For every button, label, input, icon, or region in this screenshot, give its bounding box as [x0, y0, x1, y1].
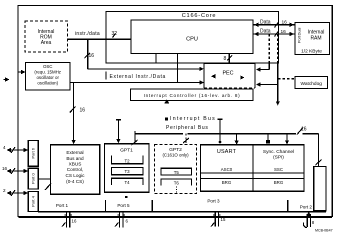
pin stub port 1: [62, 212, 77, 228]
USART ASC0 box: [201, 145, 305, 192]
wire peripheral bus drop to GPT1: [132, 134, 138, 145]
svg-text:16: 16: [2, 166, 8, 171]
GPT1 box: [105, 144, 150, 193]
svg-text:Port 4: Port 4: [31, 195, 36, 206]
svg-text:16: 16: [80, 108, 86, 114]
timer T5: [161, 168, 192, 175]
port 0 box left: [28, 168, 38, 189]
wire peripheral bus drop to SSC: [285, 134, 289, 145]
svg-text:15: 15: [221, 217, 226, 222]
svg-text:T3: T3: [124, 169, 130, 174]
wire CPU to PEC with 8: [224, 54, 233, 64]
timer T4: [112, 178, 144, 185]
port strip bottom rail: [38, 200, 326, 212]
timer T6: [161, 179, 192, 186]
svg-text:BRG: BRG: [222, 180, 232, 185]
node Peripheral Bus label: [166, 125, 209, 131]
svg-text:CS Logic: CS Logic: [65, 173, 85, 178]
svg-text:Control,: Control,: [67, 167, 83, 172]
pin arrow port 0: [2, 166, 28, 174]
wire upper to PEC: [88, 67, 204, 71]
wire from data bus to PEC lower and watchdog: [256, 34, 295, 106]
pin arrow port 6: [3, 145, 28, 153]
svg-text:GPT1: GPT1: [120, 148, 133, 154]
Internal ROM Area (dashed): [25, 21, 68, 52]
pin arrow port 4: [3, 188, 28, 196]
port 4 box left: [28, 192, 38, 212]
PEC box: [204, 64, 255, 89]
svg-text:External Instr./Data: External Instr./Data: [110, 74, 167, 80]
svg-text:Interrupt Controller (16-lev.: Interrupt Controller (16-lev. arb. 8): [144, 93, 241, 98]
svg-text:Port 1: Port 1: [56, 203, 69, 208]
node Interrupt Bus label: [165, 116, 216, 122]
EBC box: [51, 145, 100, 195]
figure id text: [315, 229, 333, 233]
wire interrupt stub to SSC: [266, 134, 270, 144]
svg-text:instr./data: instr./data: [75, 31, 100, 37]
svg-text:XBUS: XBUS: [69, 162, 82, 167]
svg-text:(requ. 15MHz: (requ. 15MHz: [34, 70, 61, 75]
internal RAM box: [295, 23, 330, 55]
pin stub port 3: [211, 212, 226, 227]
svg-text:Port 5: Port 5: [117, 203, 130, 208]
svg-text:T2: T2: [124, 159, 130, 164]
svg-text:External: External: [66, 150, 83, 155]
svg-text:Bus and: Bus and: [66, 156, 84, 161]
svg-text:RAM: RAM: [310, 36, 321, 42]
wire CPU down to lower bus: [177, 54, 179, 83]
node Port 2 label: [300, 205, 313, 210]
svg-text:(C161O only): (C161O only): [162, 153, 189, 158]
svg-text:Dual: Dual: [298, 27, 302, 35]
pin stub port 5: [115, 212, 129, 228]
wire interrupt stub to USART: [218, 119, 223, 143]
wire data upper CPU-RAM: [253, 19, 295, 27]
svg-text:Watchdog: Watchdog: [300, 81, 322, 87]
svg-text:PEC: PEC: [222, 71, 233, 77]
wire dotted below T6: [176, 187, 178, 194]
svg-text:16: 16: [281, 29, 287, 35]
svg-text:32: 32: [112, 31, 118, 37]
svg-text:Port 6: Port 6: [31, 147, 36, 158]
svg-text:Area: Area: [41, 40, 52, 46]
wire peripheral bus drop to GPT2 (dashed): [183, 134, 189, 145]
wire arrow up into interrupt controller: [164, 99, 169, 103]
wire clock input into OSC: [19, 70, 26, 74]
CPU box: [131, 20, 253, 54]
svg-text:MCB-0B47: MCB-0B47: [315, 229, 333, 233]
GPT2 box (dashed, C161O only): [155, 145, 197, 194]
node Port 1 label: [56, 203, 69, 208]
svg-text:SSC: SSC: [274, 167, 283, 172]
watchdog box: [295, 77, 328, 89]
svg-text:2: 2: [3, 188, 6, 193]
svg-text:Port 3: Port 3: [207, 199, 220, 204]
svg-text:16: 16: [89, 53, 95, 59]
svg-text:oscillator or: oscillator or: [36, 75, 59, 80]
svg-text:T4: T4: [124, 180, 130, 185]
svg-text:ASC0: ASC0: [221, 167, 233, 172]
node below GPT1: [125, 196, 127, 198]
C166-Core box U0: [106, 12, 279, 64]
sync channel SSC box: [201, 149, 305, 185]
wire port stack to EBC: [38, 179, 51, 190]
wire peripheral bus 16 slash: [297, 127, 307, 135]
wire peripheral bus drop to Port 2: [316, 134, 322, 167]
wire interrupt stub to GPT1: [116, 120, 121, 144]
svg-text:(SPI): (SPI): [273, 155, 284, 160]
svg-text:Port 0: Port 0: [31, 172, 36, 183]
wire lower to PEC: [70, 80, 204, 84]
port 2 box right: [314, 167, 326, 211]
svg-text:C166-Core: C166-Core: [182, 13, 217, 19]
wire peripheral bus: [135, 131, 318, 134]
pin curl mark: [303, 223, 307, 228]
svg-text:oscillation): oscillation): [37, 81, 58, 86]
interrupt controller box: [131, 89, 254, 101]
wire peripheral bus drop to USART: [234, 134, 238, 145]
wire 16-bit down from instr./data: [85, 40, 95, 69]
svg-text:OSC: OSC: [43, 64, 53, 69]
svg-text:Data: Data: [260, 19, 271, 25]
svg-text:Port 2: Port 2: [300, 205, 313, 210]
pin XTAL input arrow: [4, 77, 10, 81]
svg-text:USART: USART: [217, 149, 237, 155]
svg-text:Interrupt Bus: Interrupt Bus: [170, 116, 216, 122]
svg-text:Data: Data: [260, 28, 271, 34]
svg-text:(0-4 CS): (0-4 CS): [66, 179, 84, 184]
svg-text:CPU: CPU: [186, 37, 198, 43]
svg-text:1/2 KByte: 1/2 KByte: [301, 49, 322, 55]
wire CPU to core edge tick: [155, 54, 157, 64]
svg-text:BRG: BRG: [274, 180, 284, 185]
timer T3: [112, 167, 144, 174]
wire from data bus to PEC upper: [256, 34, 269, 72]
svg-text:Peripheral Bus: Peripheral Bus: [166, 125, 209, 131]
OSC box: [26, 63, 71, 91]
svg-text:16: 16: [282, 20, 288, 26]
svg-text:8: 8: [224, 56, 227, 62]
wire instr./data ROM to CPU: [68, 31, 132, 39]
pin stub port 2: [307, 212, 315, 228]
port 6 box left: [28, 141, 38, 167]
node External Instr./Data: [106, 72, 166, 81]
timer T2: [112, 156, 144, 164]
wire EBC feed down: [70, 83, 85, 145]
svg-text:T6: T6: [174, 181, 180, 186]
svg-text:4: 4: [3, 145, 6, 150]
svg-text:Port: Port: [298, 35, 302, 43]
svg-text:16: 16: [72, 219, 77, 224]
node Port 3 label: [207, 199, 220, 204]
node Port 5 label: [117, 203, 130, 208]
svg-text:T5: T5: [174, 170, 180, 175]
svg-text:16: 16: [301, 127, 307, 133]
wire data lower CPU-RAM: [253, 28, 295, 36]
